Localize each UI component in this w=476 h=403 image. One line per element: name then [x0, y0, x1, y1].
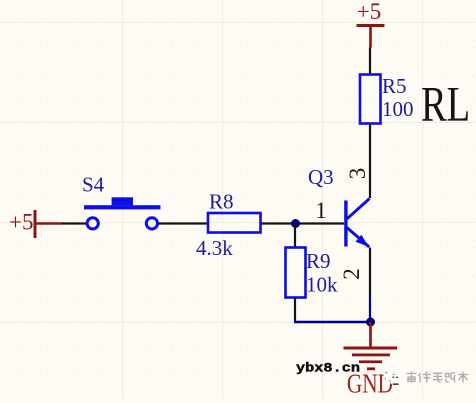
svg-text:Q3: Q3 [308, 165, 334, 189]
wire: emitter down (black part) [369, 248, 371, 297]
svg-text:+5: +5 [9, 210, 33, 235]
wire: +5 to R5 [369, 48, 371, 76]
wire: S4 to R8 [158, 222, 208, 224]
svg-text:ybx8.cn: ybx8.cn [296, 362, 360, 376]
svg-text:R9: R9 [306, 249, 331, 273]
svg-text:R5: R5 [382, 74, 407, 98]
svg-text:3: 3 [345, 168, 370, 180]
wire: R5 to collector [369, 124, 371, 199]
power +5 (top right) [357, 0, 385, 48]
transistor Q3 [344, 199, 369, 248]
wire red: +5 to switch [37, 222, 62, 225]
svg-text:+5: +5 [357, 0, 381, 24]
svg-text:10k: 10k [306, 273, 338, 297]
svg-text:R8: R8 [209, 190, 234, 214]
power +5 (left) [9, 210, 37, 239]
svg-text:2: 2 [339, 268, 364, 280]
watermark logo circle [383, 370, 401, 385]
svg-text:S4: S4 [82, 173, 105, 197]
watermark text 硬件笔记本 (drawn shapes) [407, 372, 469, 383]
svg-text:100: 100 [382, 97, 414, 121]
junction node emitter/gnd [366, 318, 375, 327]
wire: to S4 [62, 222, 87, 224]
wire: node to R9 [294, 224, 296, 248]
ground [344, 322, 398, 399]
resistor R8 [208, 213, 261, 233]
wire: bottom horizontal [294, 321, 370, 323]
junction node base [291, 219, 300, 228]
switch S4 [84, 197, 161, 229]
wire: R8 to base [261, 222, 345, 224]
svg-text:1: 1 [315, 198, 327, 223]
resistor R9 [286, 248, 306, 298]
wire: emitter down (blue part) [369, 297, 371, 323]
svg-text:RL: RL [421, 76, 470, 132]
wire: R9 down [294, 298, 296, 322]
resistor R5 [360, 75, 381, 124]
svg-text:4.3k: 4.3k [196, 236, 233, 260]
